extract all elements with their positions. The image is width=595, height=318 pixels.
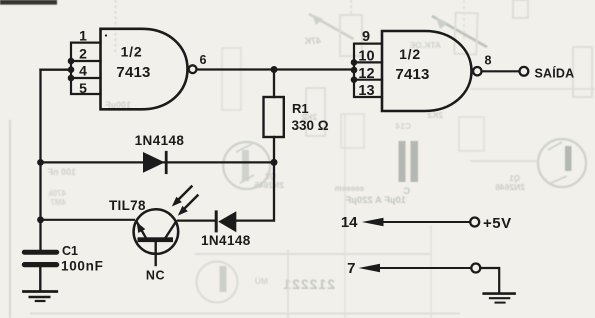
pin number 13 xyxy=(358,83,374,99)
pin number 6 xyxy=(200,53,207,67)
svg-text:10: 10 xyxy=(358,49,374,65)
pin 14 label xyxy=(341,214,358,231)
junction dot pin 2 tie xyxy=(68,58,75,65)
+5V terminal circle xyxy=(470,218,479,227)
arrow to pin 14 xyxy=(362,218,470,227)
output terminal (SAIDA) xyxy=(520,67,529,76)
svg-text:4M7: 4M7 xyxy=(50,198,66,207)
svg-text:100 nF: 100 nF xyxy=(47,167,76,177)
label 1N4148 (D2) xyxy=(201,233,251,248)
wire: left rail from U1a input to C1 xyxy=(39,70,41,250)
label 7413 (U1b) xyxy=(395,66,429,83)
wire: Q1 collector to D2 cathode xyxy=(178,220,215,222)
svg-text:7413: 7413 xyxy=(116,64,150,81)
junction dot left rail at Q1 row xyxy=(37,216,44,223)
wire: D1 row from left rail to node B xyxy=(41,161,275,163)
ground under C1 xyxy=(24,292,57,302)
label 1/2 (U1a) xyxy=(121,43,143,59)
svg-text:8: 8 xyxy=(485,53,492,67)
light arrow 1 into Q1 xyxy=(172,187,192,207)
junction dot pin 10 tie xyxy=(351,59,358,66)
resistor R1 xyxy=(264,97,284,137)
svg-text:212221: 212221 xyxy=(282,276,335,292)
svg-text:1N4148: 1N4148 xyxy=(135,133,185,148)
light arrow 2 into Q1 xyxy=(178,196,198,216)
pin number 5 xyxy=(79,80,87,96)
junction dot input wire tie xyxy=(68,66,75,73)
pin number 2 xyxy=(79,46,87,62)
svg-text:R1: R1 xyxy=(292,101,309,116)
U1b input pin ladder (pins 9,10,12,13) xyxy=(354,44,382,97)
svg-text:MÜ: MÜ xyxy=(255,276,268,286)
label +5V xyxy=(483,215,512,232)
pin 7 label xyxy=(347,260,355,277)
label 100nF xyxy=(61,259,104,274)
pin number 12 xyxy=(358,66,374,82)
arrow to pin 7 xyxy=(359,264,472,272)
label 1/2 (U1b) xyxy=(399,46,421,62)
junction dot pin 4 tie xyxy=(68,75,75,82)
svg-text:2N2646: 2N2646 xyxy=(495,182,525,192)
wire: left rail to U1a input ladder (pin 4) xyxy=(41,69,72,71)
svg-text:1/2: 1/2 xyxy=(399,46,421,62)
wire: R1 bottom through node B down and left to D2 xyxy=(236,137,274,221)
svg-text:9: 9 xyxy=(362,29,370,45)
wire: terminal to ground xyxy=(480,268,499,292)
svg-text:1N4148: 1N4148 xyxy=(201,233,251,248)
svg-text:2N2645: 2N2645 xyxy=(254,180,284,190)
label NC (base open) xyxy=(146,269,165,283)
svg-text:330 Ω: 330 Ω xyxy=(292,118,329,133)
junction dot node B (D1 row) xyxy=(271,159,278,166)
svg-text:5: 5 xyxy=(79,80,87,96)
diode D2 1N4148 (cathode left, anode right) xyxy=(215,210,237,232)
svg-text:SAÍDA: SAÍDA xyxy=(535,65,575,80)
svg-text:C1: C1 xyxy=(62,244,78,258)
NAND gate U1a body (1/2 7413) xyxy=(101,29,188,110)
U1a input pin ladder (pins 1,2,4,5) xyxy=(71,43,101,94)
svg-text:470k: 470k xyxy=(48,189,66,198)
svg-text:7413: 7413 xyxy=(395,66,429,83)
svg-text:47K: 47K xyxy=(304,36,321,46)
wire: left rail to phototransistor Q1 xyxy=(41,219,135,221)
junction dot node A (top of R1) xyxy=(271,66,278,73)
wire: U1b pin8 to output terminal xyxy=(482,70,520,72)
svg-text:12: 12 xyxy=(358,66,374,82)
label SAIDA xyxy=(535,65,575,80)
svg-text:13: 13 xyxy=(358,83,374,99)
pin number 8 xyxy=(485,53,492,67)
ground (pin 7 net) xyxy=(484,294,515,303)
ground terminal circle (pin 7 net) xyxy=(471,264,480,273)
diode D1 1N4148 (anode left, cathode right) xyxy=(143,152,166,173)
junction dot input wire tie (pin 12) xyxy=(351,67,358,74)
svg-text:NC: NC xyxy=(146,269,165,283)
NAND gate U1b body (1/2 7413) xyxy=(382,31,472,111)
label TIL78 xyxy=(109,198,146,213)
svg-text:10µF A 220µF: 10µF A 220µF xyxy=(345,195,406,206)
svg-text:14: 14 xyxy=(341,214,358,231)
svg-text:2: 2 xyxy=(79,46,87,62)
label R1 xyxy=(292,101,309,116)
svg-text:7: 7 xyxy=(347,260,355,277)
pin number 9 xyxy=(362,29,370,45)
svg-text:eeeeem: eeeeem xyxy=(335,184,364,193)
wire: node A down to R1 xyxy=(273,70,275,98)
svg-text:C14: C14 xyxy=(395,121,411,131)
svg-text:4: 4 xyxy=(79,63,87,79)
svg-text:+5V: +5V xyxy=(483,215,512,232)
svg-text:6: 6 xyxy=(200,53,207,67)
capacitor C1 xyxy=(22,250,59,290)
phototransistor Q1 TIL78 xyxy=(134,209,179,265)
pin number 10 xyxy=(358,49,374,65)
output bubble U1b (pin 8) xyxy=(473,67,481,75)
junction dot pin 12 tie xyxy=(351,76,358,83)
label 7413 (U1a) xyxy=(116,64,150,81)
svg-text:1: 1 xyxy=(79,28,87,44)
pin number 1 xyxy=(79,28,87,44)
junction dot left rail at D1 row xyxy=(37,159,44,166)
wire: U1a pin6 to U1b pin12 xyxy=(197,68,354,70)
svg-text:1/2: 1/2 xyxy=(121,43,143,59)
label C1 xyxy=(62,244,78,258)
pin number 4 xyxy=(79,63,87,79)
label 1N4148 (D1) xyxy=(135,133,185,148)
output bubble U1a (pin 6) xyxy=(189,65,197,73)
svg-text:100nF: 100nF xyxy=(61,259,104,274)
label 330 ohm xyxy=(292,118,329,133)
svg-text:TIL78: TIL78 xyxy=(109,198,146,213)
